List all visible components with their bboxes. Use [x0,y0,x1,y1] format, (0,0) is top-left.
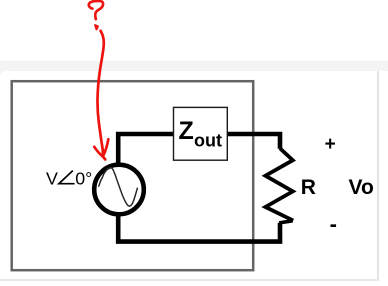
enclosure box (gray schematic frame) [12,81,254,270]
svg-text:out: out [194,130,222,150]
red question mark [89,1,103,19]
wire: bottom wire + source bottom lead + resistor bottom lead [118,215,280,242]
svg-text:0°: 0° [75,168,92,188]
white card [0,71,379,281]
red arrowhead [94,139,108,159]
svg-text:V: V [46,168,58,188]
resistor R zigzag [265,148,293,220]
gray gap band between cards [0,61,388,71]
svg-text:Z: Z [179,117,194,145]
angle symbol [59,171,75,184]
svg-text:-: - [330,212,337,237]
red question mark dot [95,25,98,29]
Zout impedance box [174,107,228,160]
sine wave inside source (hand-drawn) [99,168,138,206]
resistor bottom return segment [279,221,292,223]
voltage source circle [94,165,144,215]
svg-text:Vo: Vo [349,176,374,199]
gray corner patch behind card rounded corner [0,70,10,77]
wire: left vertical + top wire to Zout and to resistor lead [118,134,280,165]
svg-text:R: R [301,176,316,199]
red arrow shaft [97,31,103,156]
svg-text:+: + [325,134,336,155]
